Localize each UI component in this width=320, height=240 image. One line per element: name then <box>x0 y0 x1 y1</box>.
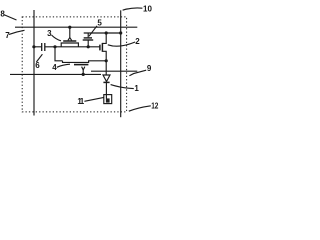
leader 2 <box>108 42 135 46</box>
leader 5 <box>89 26 97 36</box>
capacitor 6 plates <box>42 43 45 51</box>
svg-text:6: 6 <box>35 61 40 70</box>
node: cap5 on y47 <box>87 45 90 48</box>
transistor T4 arrowhead <box>82 67 85 70</box>
wire: left vertical line <box>33 10 35 116</box>
node: y33 on right vertical <box>119 31 122 34</box>
leader 7 <box>9 30 25 34</box>
box 11 outline <box>104 95 112 104</box>
leader 1 <box>111 85 134 89</box>
leader 10 <box>123 8 143 10</box>
svg-text:1: 1 <box>80 97 85 106</box>
MOS capacitor 5 lead <box>87 40 89 47</box>
MOS capacitor 5 bottom plate <box>83 39 94 41</box>
MOS capacitor 5 upper line y33 <box>84 32 121 34</box>
svg-text:5: 5 <box>97 19 102 28</box>
transistor T3 gate bar <box>63 40 76 42</box>
transistor T2 gate bar <box>99 45 101 51</box>
diode 1 lower lead <box>105 82 107 98</box>
svg-text:1: 1 <box>134 84 139 93</box>
node: T2 source / T4 drain <box>105 59 108 62</box>
transistor T3 gate lead <box>69 27 71 37</box>
transistor T4 gate bar <box>74 64 88 66</box>
svg-text:8: 8 <box>0 9 5 18</box>
diode 1 cathode bar <box>103 81 109 83</box>
wire: top supply rail 7 <box>15 26 137 28</box>
leader 11 <box>84 97 103 101</box>
node: rail to T3 gate junction <box>68 26 71 29</box>
wire: diode lead down <box>105 61 107 75</box>
transistor T3 arrowhead <box>68 38 72 41</box>
node: T4 gate on bottom rail <box>82 73 85 76</box>
svg-text:4: 4 <box>52 63 57 72</box>
transistor T3 channel <box>61 43 78 47</box>
wire: output row y71 <box>91 70 137 72</box>
transistor T2 drain stub <box>102 33 106 43</box>
transistor T2 channel <box>101 43 103 52</box>
transistor T2 source stub <box>102 51 106 61</box>
diode 1 triangle <box>103 75 110 82</box>
svg-text:3: 3 <box>47 29 52 38</box>
wire: cap node down and right to T4 <box>55 47 63 61</box>
leader 8 <box>4 15 16 20</box>
wire: node row y47 <box>34 46 100 48</box>
MOS capacitor 5 stub <box>87 33 89 37</box>
wire: bottom rail <box>10 73 101 75</box>
wire: right vertical line <box>120 10 122 117</box>
transistor T4 channel <box>63 61 107 63</box>
MOS capacitor 5 top plate <box>84 37 92 39</box>
svg-text:12: 12 <box>151 102 159 111</box>
leader 9 <box>129 70 146 76</box>
svg-text:9: 9 <box>147 64 152 73</box>
node: T2 drain on y33 <box>105 31 108 34</box>
node: left vertical to cap <box>32 45 35 48</box>
svg-text:7: 7 <box>5 31 10 40</box>
leader 12 <box>129 106 151 111</box>
dashed box 8 (chip boundary) <box>22 17 126 112</box>
svg-text:10: 10 <box>143 4 152 13</box>
leader 3 <box>52 35 62 41</box>
leader 4 <box>57 64 70 67</box>
node: cap node junction <box>53 45 56 48</box>
transistor T4 gate lead <box>82 70 84 75</box>
leader 6 <box>36 54 42 62</box>
svg-text:2: 2 <box>135 37 140 46</box>
box 11 fill mark <box>106 98 110 102</box>
